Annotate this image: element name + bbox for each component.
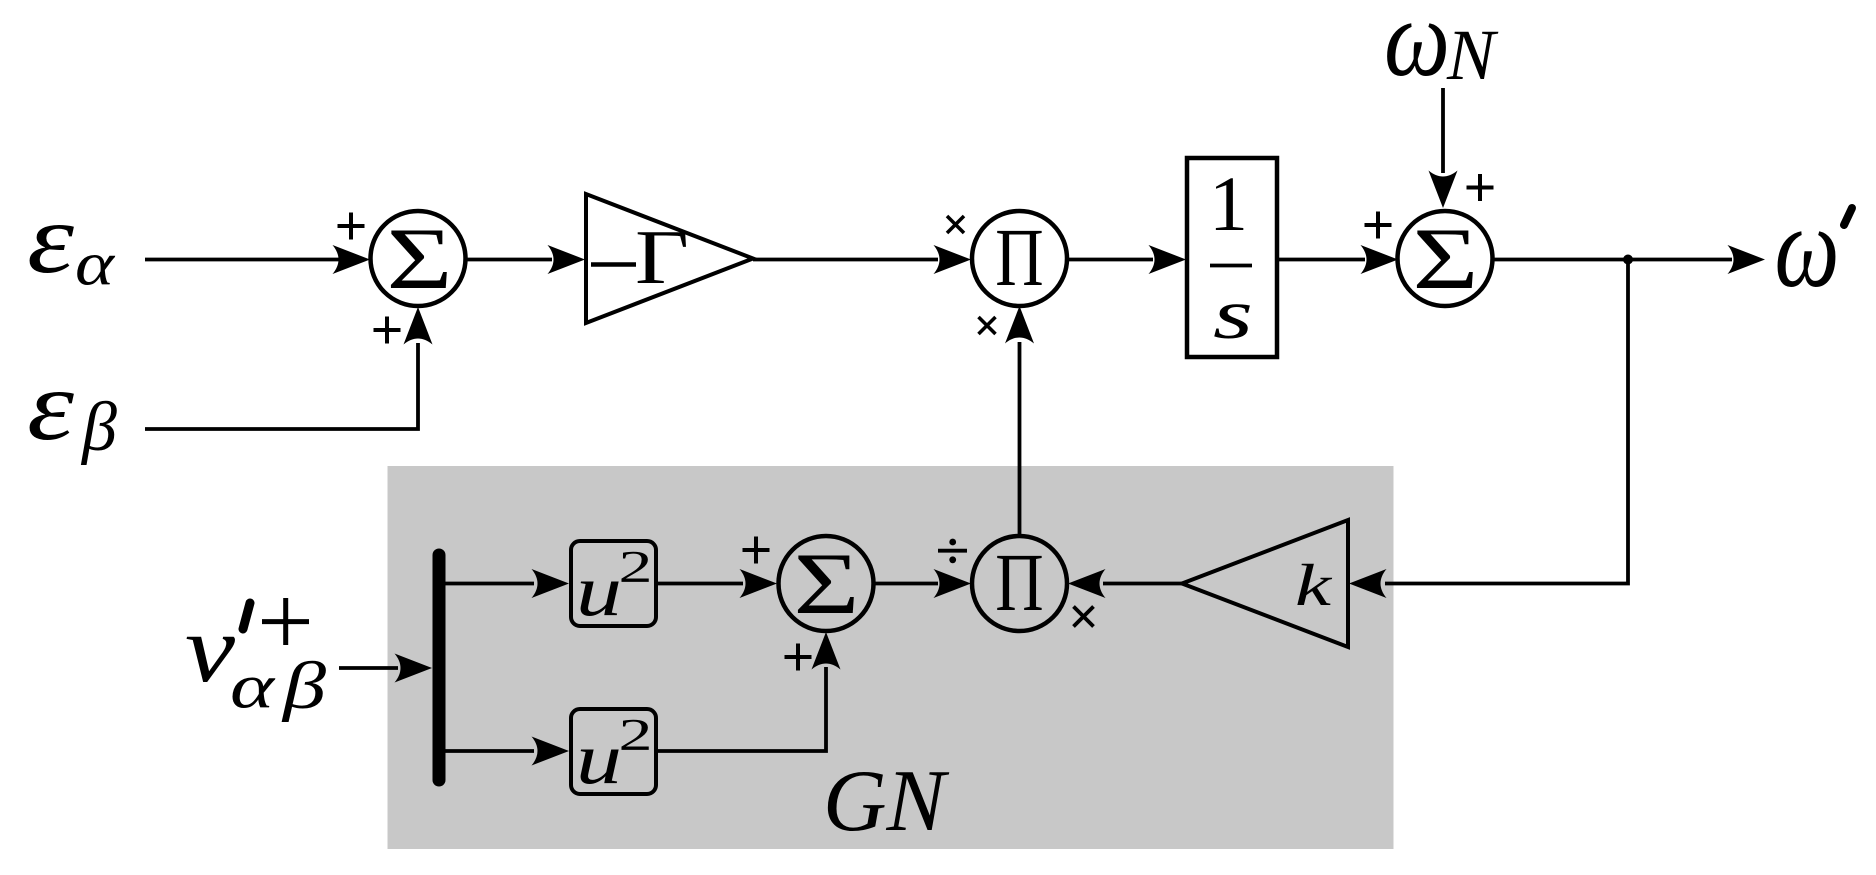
wire S2 to output omega' bbox=[1493, 245, 1766, 274]
svg-text:β: β bbox=[280, 649, 326, 723]
wire omega_N to S2 top bbox=[1429, 88, 1458, 208]
svg-text:ε: ε bbox=[27, 183, 75, 294]
wire gain to multiplier P1 bbox=[753, 245, 971, 274]
plus sign at S1 bottom input bbox=[374, 317, 401, 344]
divide sign at P2 left input bbox=[938, 539, 967, 564]
svg-text:Π: Π bbox=[995, 536, 1043, 628]
wire P2 up to P1 bottom bbox=[1005, 306, 1034, 536]
svg-text:u: u bbox=[576, 550, 622, 631]
svg-text:ω: ω bbox=[1384, 0, 1450, 99]
GN gray region box bbox=[388, 466, 1394, 849]
svg-text:N: N bbox=[1446, 15, 1499, 95]
label omega_N bbox=[1384, 0, 1499, 99]
svg-text:Γ: Γ bbox=[635, 214, 689, 300]
wire P1 to integrator bbox=[1067, 245, 1186, 274]
wire epsilon_alpha to summer S1 bbox=[145, 245, 370, 274]
svg-text:1: 1 bbox=[1209, 160, 1248, 247]
svg-text:Σ: Σ bbox=[1413, 211, 1479, 308]
svg-text:β: β bbox=[80, 389, 117, 466]
plus sign at S2 left input bbox=[1365, 212, 1392, 239]
integrator block 1/s bbox=[1187, 158, 1277, 357]
feedback wire from junction down to gain k bbox=[1349, 260, 1628, 599]
wire epsilon_beta to S1 bottom bbox=[145, 307, 433, 429]
svg-text:2: 2 bbox=[619, 710, 653, 760]
svg-text:2: 2 bbox=[619, 542, 653, 592]
plus sign at S1 left input bbox=[338, 213, 365, 240]
label v'alphabeta+ bbox=[185, 595, 327, 723]
label epsilon_alpha bbox=[27, 183, 116, 299]
label epsilon_beta bbox=[27, 350, 117, 466]
plus sign at S3 left input bbox=[743, 537, 770, 564]
summer S3 bbox=[779, 536, 874, 633]
gain triangle k bbox=[1182, 520, 1348, 647]
block u^2 top bbox=[571, 541, 656, 631]
times sign at P1 left input bbox=[947, 216, 964, 233]
svg-text:Σ: Σ bbox=[794, 536, 860, 633]
branch bar bbox=[433, 555, 446, 780]
divider P2 bbox=[972, 536, 1067, 631]
svg-text:GN: GN bbox=[823, 753, 950, 850]
wire v' into branch bar bbox=[339, 654, 432, 683]
plus sign at S2 top input bbox=[1467, 174, 1494, 201]
wire S1 to gain -Gamma bbox=[466, 245, 586, 274]
wire integrator to summer S2 bbox=[1277, 245, 1398, 274]
svg-text:Σ: Σ bbox=[387, 211, 453, 308]
wire u^2 bottom up to S3 bottom bbox=[656, 632, 841, 751]
wire u^2 top to summer S3 bbox=[656, 569, 777, 598]
junction node dot bbox=[1623, 255, 1633, 265]
wire bar to u^2 bottom block bbox=[445, 737, 569, 766]
times sign at P1 bottom input bbox=[979, 317, 996, 334]
block u^2 bottom bbox=[571, 709, 656, 799]
plus sign at S3 bottom input bbox=[785, 644, 812, 671]
wire gain k to divider P2 bbox=[1068, 569, 1182, 598]
summer S1 bbox=[371, 211, 466, 308]
svg-text:Π: Π bbox=[995, 211, 1043, 303]
wire bar to u^2 top block bbox=[445, 569, 569, 598]
svg-text:α: α bbox=[230, 651, 276, 722]
multiplier P1 bbox=[972, 211, 1067, 306]
gain triangle -Gamma bbox=[586, 194, 753, 323]
svg-text:ω: ω bbox=[1775, 183, 1840, 312]
svg-text:v: v bbox=[185, 595, 235, 702]
svg-text:s: s bbox=[1213, 276, 1253, 354]
times sign at P2 right input bbox=[1074, 607, 1094, 627]
output label omega' bbox=[1775, 183, 1853, 312]
svg-text:k: k bbox=[1295, 552, 1333, 618]
svg-text:u: u bbox=[576, 718, 622, 799]
svg-text:ε: ε bbox=[27, 350, 75, 461]
wire S3 to divider P2 bbox=[874, 569, 972, 598]
summer S2 bbox=[1398, 211, 1493, 308]
label GN bbox=[823, 753, 950, 850]
svg-text:α: α bbox=[75, 231, 116, 299]
